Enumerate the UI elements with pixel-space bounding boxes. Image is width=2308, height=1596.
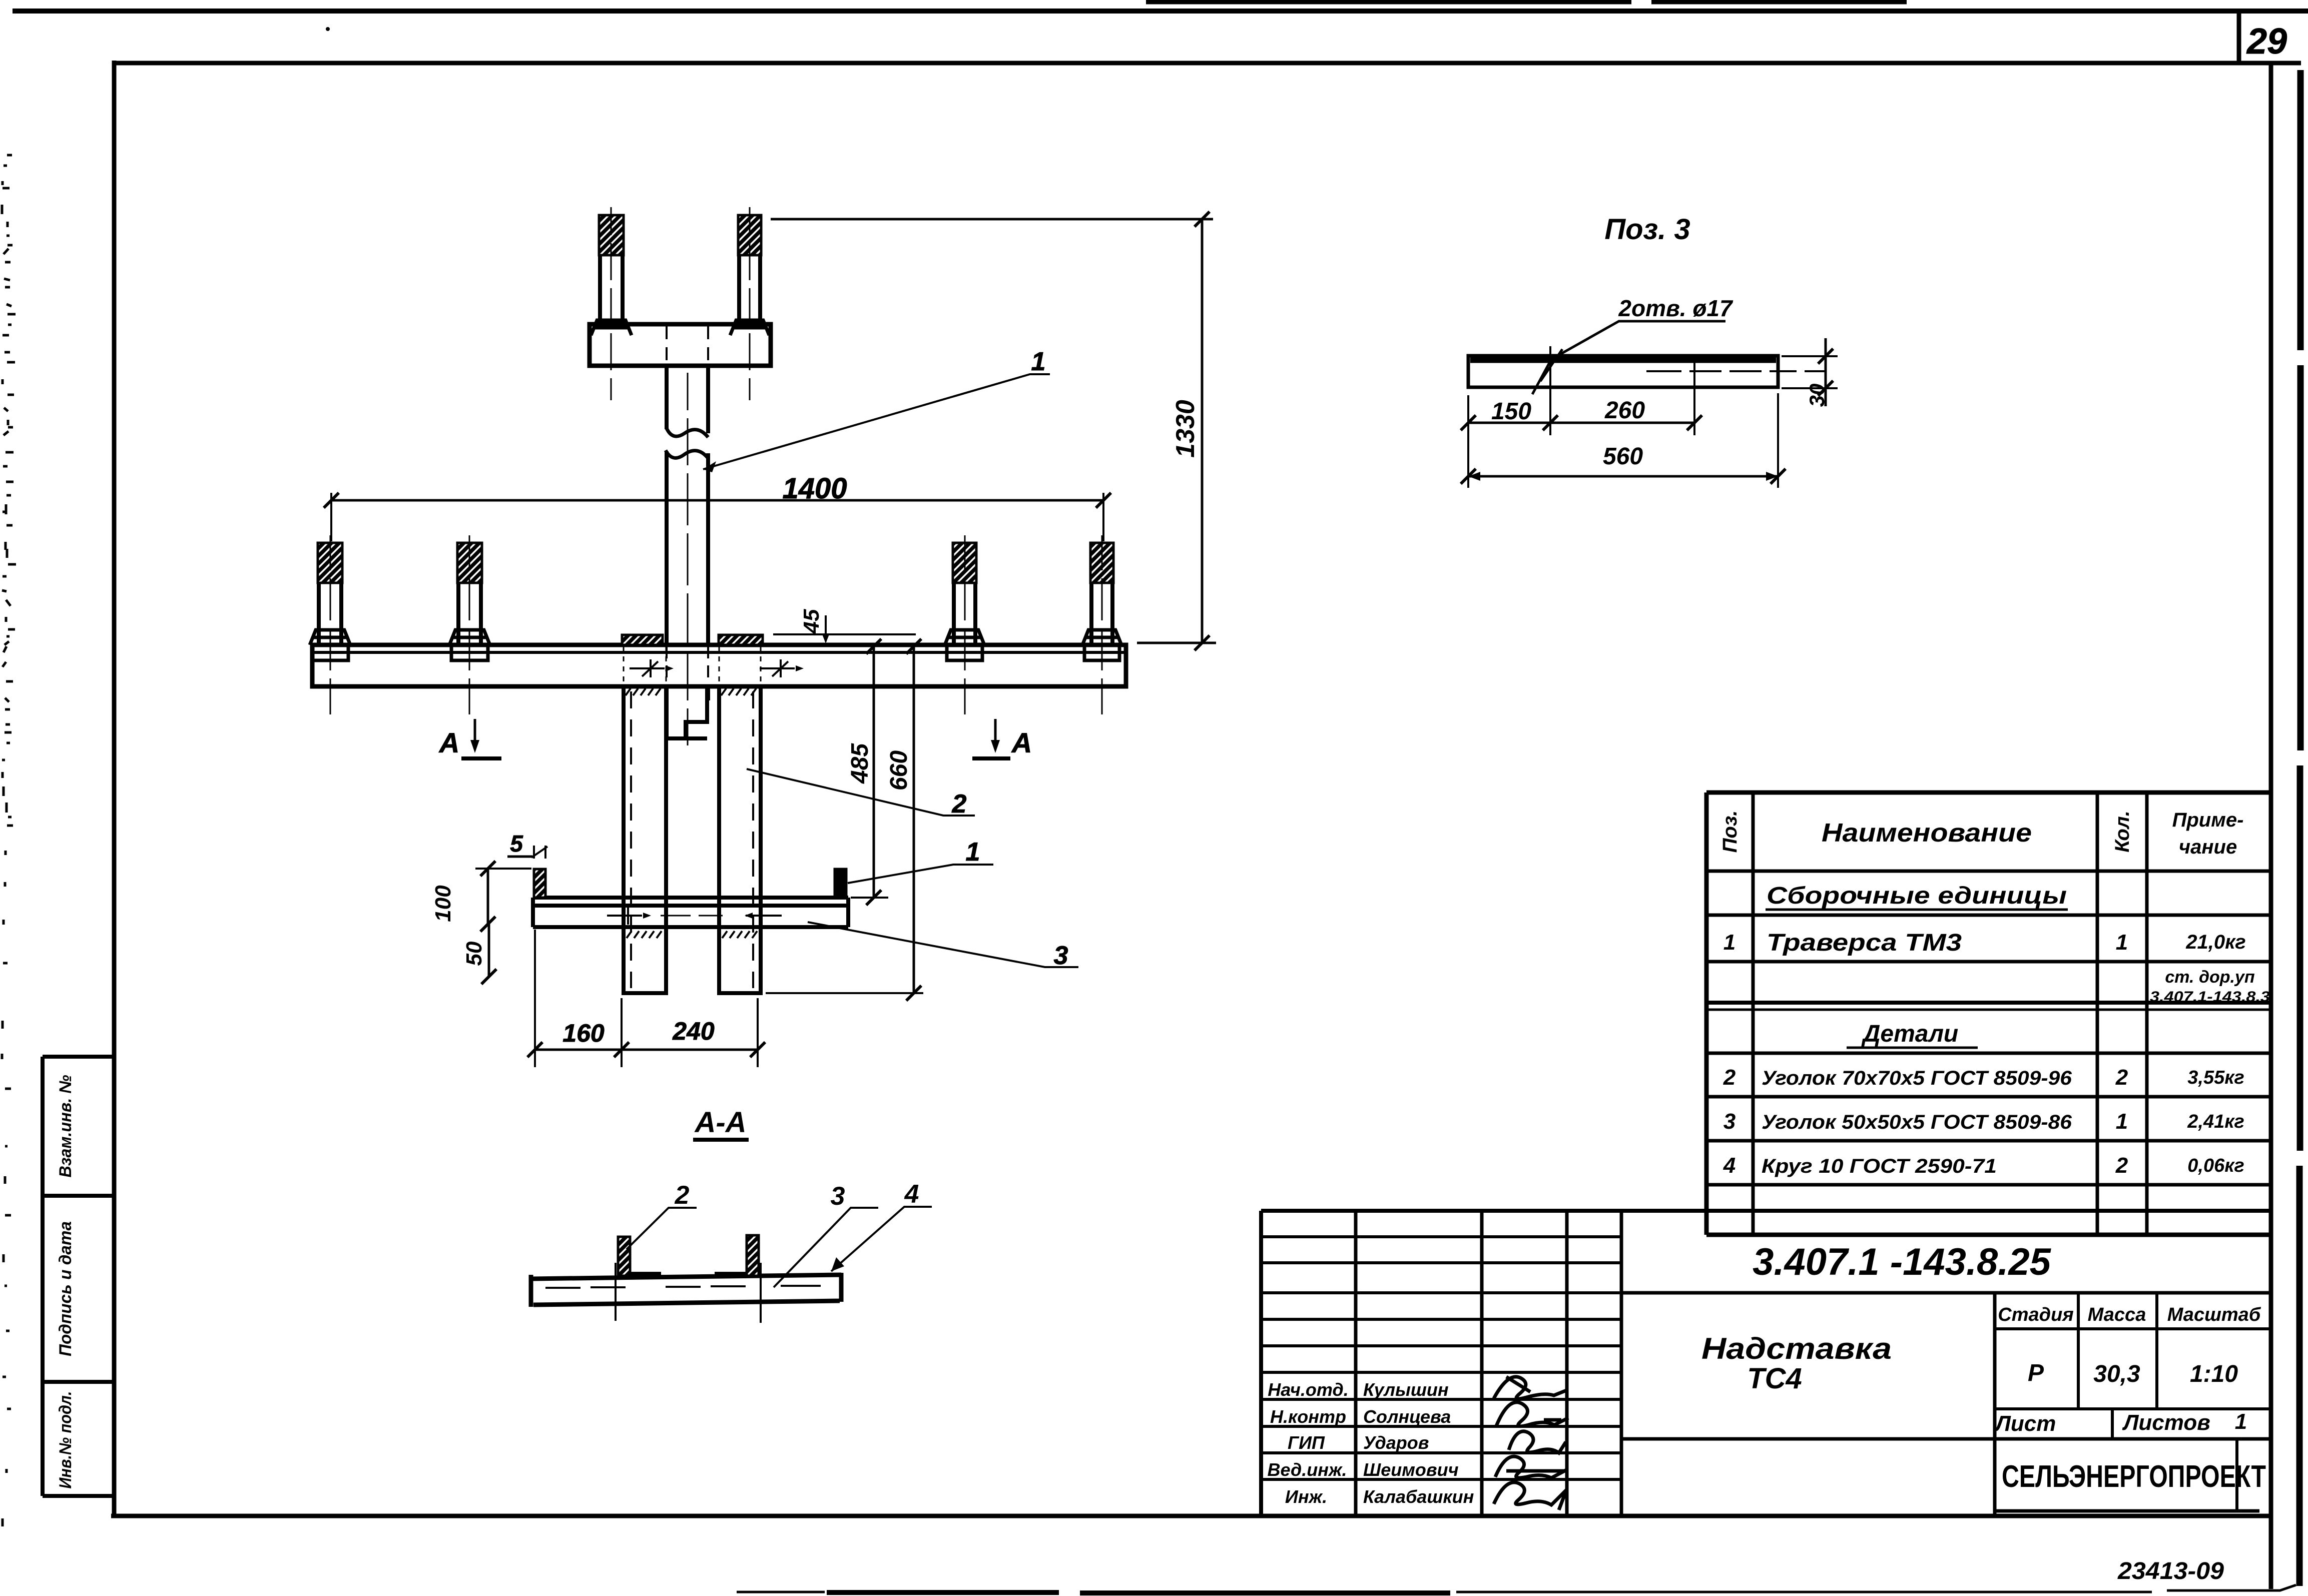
svg-text:1: 1 [966,838,980,867]
svg-text:2: 2 [2115,1065,2128,1090]
name cell bottom [1621,1437,2271,1441]
table row lines [1706,871,2271,1185]
svg-text:3.407.1 -143.8.25: 3.407.1 -143.8.25 [1753,1241,2052,1283]
pos3 dimension 30 [1782,356,1838,388]
top bolt left bell [591,320,632,335]
svg-text:Уголок 70х70х5 ГОСТ 8509-96: Уголок 70х70х5 ГОСТ 8509-96 [1762,1067,2072,1089]
outer top border line [13,9,2308,14]
svg-text:Нач.отд.: Нач.отд. [1268,1379,1348,1400]
dimension 45 [773,633,916,635]
svg-text:Инв.№ подл.: Инв.№ подл. [56,1391,75,1489]
svg-text:Р: Р [2028,1360,2044,1386]
doc number cell bottom [1621,1291,2271,1295]
top bolt right bell [730,320,769,335]
svg-text:ГИП: ГИП [1288,1432,1325,1453]
svg-text:100: 100 [431,885,455,922]
section angle 2 left [618,1237,630,1276]
pos3 hole 1 centre [1549,346,1551,400]
dimension 160 240 [535,930,758,1067]
crossarm bolt 4 shaft [1091,583,1112,645]
weld hatch ticks at angle 3 crossing [627,931,757,938]
horizontal angle 3 [533,898,848,927]
svg-text:Масштаб: Масштаб [2167,1304,2261,1325]
svg-text:Листов: Листов [2122,1410,2210,1435]
crossarm bar [312,645,1126,686]
top bolt right shaft [739,254,760,324]
pole post below crossarm with notch [667,686,708,738]
signature scribbles [1494,1377,1566,1399]
svg-text:30: 30 [1805,384,1829,407]
svg-text:Н.контр: Н.контр [1270,1406,1346,1427]
svg-text:1: 1 [2116,930,2128,955]
section leader 2 [627,1208,697,1249]
inner frame bottom [111,1514,2271,1518]
crossarm bolt 3 bell [945,630,984,660]
top bolt right centerline [749,207,751,400]
table double row line [1706,1001,2271,1005]
title block outer [1261,1211,2271,1516]
svg-text:2: 2 [1723,1065,1736,1090]
svg-text:Детали: Детали [1861,1021,1959,1047]
svg-text:160: 160 [562,1019,605,1047]
pos3 centreline [1646,370,1826,372]
leader 1 bottom [848,865,993,883]
dimension 100 [475,868,531,870]
svg-text:1:10: 1:10 [2190,1361,2238,1387]
vertical angle 2 left hidden edge [630,691,632,988]
svg-text:СЕЛЬЭНЕРГОПРОЕКТ: СЕЛЬЭНЕРГОПРОЕКТ [2002,1459,2266,1494]
TITLE-BLOCK [1261,1211,2271,1584]
crossarm bolt 1 centerline [330,535,331,714]
round bar 4 tab left [534,869,545,898]
svg-text:150: 150 [1491,398,1531,425]
svg-text:240: 240 [672,1017,715,1045]
section leader 4 [831,1207,932,1271]
section bolt centres [616,1263,761,1323]
leader 3 [808,922,1078,967]
left grid verticals [1356,1211,1621,1516]
svg-text:Вед.инж.: Вед.инж. [1268,1459,1347,1480]
crossarm bolt 4 hatched tip [1090,543,1113,583]
svg-text:2,41кг: 2,41кг [2187,1111,2244,1132]
crossarm bolt 2 hatched tip [457,543,482,583]
vertical angle 2 right hidden in crossarm [719,646,761,684]
crossarm bolt 3 shaft [954,583,975,645]
svg-text:3: 3 [1723,1109,1736,1134]
svg-text:4: 4 [1723,1153,1736,1178]
svg-text:1: 1 [2116,1109,2128,1134]
crossarm bolt 4 centerline [1101,535,1103,714]
pole post upper section [667,366,708,433]
right paper edge strip [2299,70,2300,1586]
inner frame right [2269,63,2273,1589]
stamp divider 1 [43,1194,114,1198]
svg-text:21,0кг: 21,0кг [2185,931,2245,953]
SECTION-AA [531,1106,932,1323]
top edge dark dashes [1146,0,1907,5]
name cell divider [1993,1293,1997,1516]
vertical angle 2 left hidden in crossarm [624,646,666,684]
dimension 1400 [331,493,1103,541]
svg-text:ТС4: ТС4 [1747,1362,1802,1395]
svg-text:23413-09: 23413-09 [2117,1558,2224,1584]
top bar of pole cap [590,324,771,366]
round bar 4 tab right [835,869,846,898]
svg-text:1330: 1330 [1171,400,1200,458]
svg-text:Сборочные единицы: Сборочные единицы [1767,883,2067,909]
org box [2235,1439,2238,1511]
pos3 dimension 150 [1468,385,1550,488]
svg-text:Кулышин: Кулышин [1363,1379,1449,1400]
bottom paper edge line [737,1585,2296,1592]
svg-text:0,06кг: 0,06кг [2187,1155,2244,1176]
svg-text:А: А [438,727,459,758]
pos3 strap top flange thick [1470,357,1776,363]
svg-text:Надставка: Надставка [1701,1332,1892,1365]
top bolt right hatched tip [738,215,761,255]
svg-text:4: 4 [904,1180,919,1209]
svg-text:3: 3 [1054,941,1068,970]
crossarm bolt 2 shaft [458,583,481,645]
PARTS-TABLE [1706,792,2271,1235]
svg-text:Поз.: Поз. [1719,811,1741,853]
svg-text:3: 3 [831,1182,845,1211]
svg-text:Приме-: Приме- [2172,809,2244,831]
crossarm flange line [313,651,1125,654]
pos3 hole 2 centre [1693,356,1695,396]
pole post lower section [667,451,708,645]
svg-text:2: 2 [2115,1153,2128,1178]
top bolt left centerline [611,207,612,400]
inner frame left [112,61,117,1516]
table column lines [1753,792,2147,1235]
crossarm bolt 3 hatched tip [953,543,976,583]
svg-text:Лист: Лист [1994,1411,2056,1436]
section bar hidden dash [545,1286,821,1288]
MAIN-VIEW [310,207,1216,1067]
dimension 485 [873,646,875,898]
angle 2 tab above crossarm right [719,635,763,645]
svg-text:3.407.1-143.8.3: 3.407.1-143.8.3 [2150,989,2270,1005]
svg-text:1400: 1400 [782,472,847,505]
left paper edge tick marks [2,155,16,1526]
crossarm bolt 1 shaft [319,583,341,645]
pole post hidden through crossarm [667,646,708,684]
svg-text:1: 1 [1723,930,1736,955]
angle 2 tab above crossarm left [622,635,663,645]
svg-text:Стадия: Стадия [1998,1304,2073,1325]
svg-text:Калабашкин: Калабашкин [1363,1486,1474,1507]
svg-text:ст. дор.уп: ст. дор.уп [2165,968,2254,987]
dimension 1330 [771,218,1213,221]
svg-text:Поз. 3: Поз. 3 [1604,213,1690,246]
dimension 660 [913,646,915,993]
svg-text:Взам.инв. №: Взам.инв. № [56,1075,75,1177]
crossarm bolt 2 bell [449,630,490,660]
vertical angle 2 left [624,686,666,993]
sheet number box line [2237,13,2241,63]
svg-text:29: 29 [2246,22,2287,62]
left grid rows [1261,1237,1621,1479]
top bolt left shaft [600,254,623,324]
angle 3 centre marks [607,907,642,925]
svg-text:Подпись и дата: Подпись и дата [56,1221,75,1356]
section leader 3 [774,1208,878,1287]
svg-text:Ударов: Ударов [1363,1432,1429,1453]
svg-text:А-А: А-А [694,1106,746,1139]
table outer border [1706,792,2271,1235]
svg-text:1: 1 [2235,1409,2247,1434]
list row [2111,1409,2114,1439]
svg-text:3,55кг: 3,55кг [2187,1067,2244,1088]
weld hatch ticks below crossarm [626,688,756,695]
svg-text:Шеимович: Шеимович [1363,1459,1459,1480]
svg-text:А: А [1011,727,1032,758]
svg-text:30,3: 30,3 [2093,1361,2140,1387]
svg-text:485: 485 [847,743,873,784]
crossarm bolt 3 centerline [964,535,966,714]
svg-text:2: 2 [675,1181,690,1210]
svg-text:1: 1 [1031,347,1046,376]
pole post centerline [687,373,689,745]
pole post hidden edges in top bar [667,326,708,364]
svg-text:50: 50 [462,941,486,966]
vertical angle 2 right hidden edge [752,691,754,988]
svg-text:Наименование: Наименование [1822,819,2032,848]
svg-text:Кол.: Кол. [2111,811,2133,853]
pole post break squiggle [666,428,708,458]
svg-text:660: 660 [886,750,912,790]
svg-text:2отв. ø17: 2отв. ø17 [1618,295,1734,321]
dimension 50 [488,924,490,977]
pos3 dimension 260 [1693,382,1695,435]
crossarm bolt 1 hatched tip [318,543,342,583]
crossarm bolt 4 bell [1082,630,1121,660]
svg-text:2: 2 [952,789,967,819]
svg-text:260: 260 [1604,397,1645,424]
LEFT-STAMPS [43,1057,114,1496]
svg-text:Траверса ТМ3: Траверса ТМ3 [1767,930,1962,956]
svg-text:5: 5 [510,831,523,857]
stadia grid [1995,1293,2271,1409]
crossarm bolt 1 bell [310,630,350,660]
angle 3 centre dash [661,915,723,917]
vertical angle 2 right [719,686,761,993]
svg-text:Уголок 50х50х5 ГОСТ 8509-86: Уголок 50х50х5 ГОСТ 8509-86 [1762,1111,2072,1133]
pos3 dimension 560 [1777,393,1779,488]
bolt centre marks below crossarm [630,659,665,677]
crossarm bolt 2 centerline [469,535,470,714]
svg-text:45: 45 [799,609,824,634]
svg-text:Солнцева: Солнцева [1363,1406,1451,1427]
svg-text:Масса: Масса [2088,1304,2146,1325]
svg-text:Инж.: Инж. [1285,1486,1327,1507]
pos3 strap bar [1468,356,1778,387]
leader 2 [747,769,975,816]
inner frame top [114,61,2301,66]
stamp divider 2 [43,1380,114,1384]
section bar item 3 [531,1273,841,1307]
svg-text:560: 560 [1603,443,1643,470]
POS3-DETAIL [1461,213,1838,488]
section angle 2 right [747,1235,759,1276]
leader 1 top [703,374,1050,469]
stamp column box [43,1057,114,1496]
top bolt left hatched tip [599,215,624,255]
svg-text:чание: чание [2179,836,2237,858]
top small dot [326,27,330,31]
svg-text:Круг 10 ГОСТ 2590-71: Круг 10 ГОСТ 2590-71 [1762,1155,1997,1177]
